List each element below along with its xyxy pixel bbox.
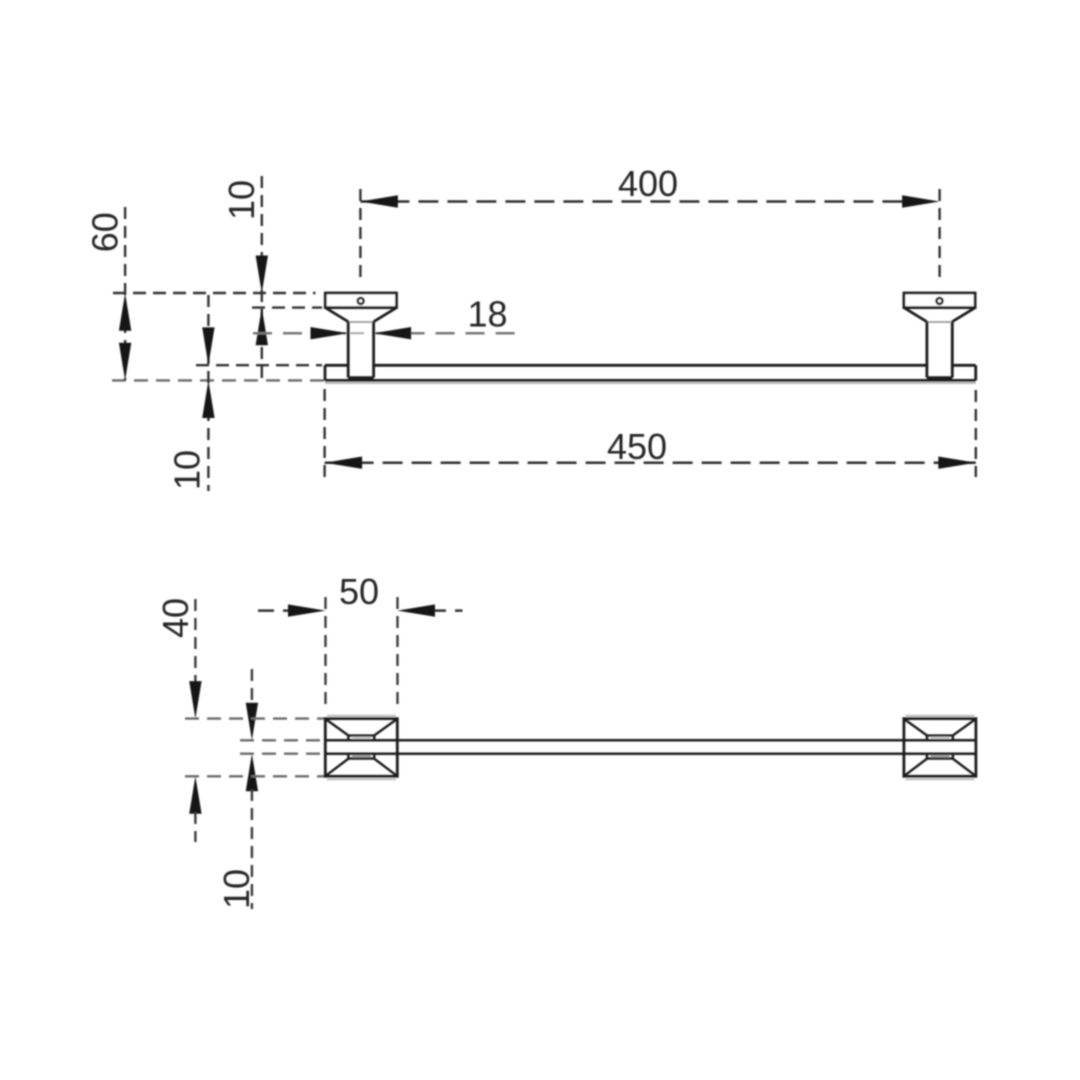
dimension 450 (overall length)	[325, 426, 976, 469]
left flange neck shading	[352, 737, 371, 739]
dimension 10 (bar height, lower-left)	[167, 295, 215, 491]
right flange shadow lines	[906, 715, 975, 717]
extension line y=718.6 (flange top, to left)	[185, 717, 324, 719]
bar (plan view)	[325, 740, 976, 753]
dimension 10 (bar depth, bottom view)	[216, 669, 258, 909]
right flange neck shading	[931, 737, 950, 739]
extension line x=975.8 (bar right end)	[975, 390, 977, 477]
svg-text:50: 50	[339, 571, 379, 612]
left flange shadow lines	[327, 715, 396, 717]
extension line y=307.6 (bottom of plate)	[252, 306, 322, 308]
extension line y=740.3 (bar top, to left)	[240, 739, 324, 741]
svg-text:10: 10	[216, 869, 257, 909]
dimension 10 (plate thickness, upper)	[221, 176, 268, 380]
right screw hole	[937, 298, 943, 304]
right wall plate (front view)	[904, 293, 975, 308]
extension line y=380.4 (bottom of bar, to left)	[112, 379, 324, 381]
left screw hole	[358, 298, 364, 304]
left flange (plan view)	[325, 719, 397, 777]
dimension 18 (post width)	[253, 294, 516, 340]
svg-text:40: 40	[155, 598, 196, 638]
bar (front view)	[325, 365, 976, 380]
extension line x=324.6 (bar left end)	[323, 389, 325, 479]
extension line x=360.4 (left post centre)	[359, 189, 361, 284]
extension line y=753.7 (bar bottom, to left)	[240, 753, 324, 755]
right flange taper diagonals and neck	[905, 720, 975, 776]
svg-text:60: 60	[85, 212, 126, 252]
left flange taper diagonals and neck	[326, 720, 396, 776]
svg-text:10: 10	[221, 180, 262, 220]
svg-text:18: 18	[467, 294, 507, 335]
extension line y=776.3 (flange bottom, to left)	[185, 775, 324, 777]
extension line x=325.5 (flange left)	[324, 597, 326, 708]
svg-text:450: 450	[607, 426, 667, 467]
extension line x=397.5 (flange right)	[396, 597, 398, 708]
dimension 400 (between post centres)	[360, 163, 939, 208]
svg-text:400: 400	[618, 163, 678, 204]
svg-text:10: 10	[167, 450, 208, 490]
right flange (plan view)	[904, 719, 976, 777]
extension line y=293 (top of wall plates, to left)	[113, 292, 316, 294]
right post taper (trapezoid)	[905, 308, 975, 322]
bar shadow line	[325, 382, 976, 384]
right post stem	[927, 321, 952, 323]
dimension 50 (plate width)	[258, 571, 463, 617]
dimension 60 (overall height)	[85, 207, 132, 380]
extension line y=365.2 (top of bar, to left)	[196, 364, 322, 366]
dimension 40 (flange depth)	[155, 598, 202, 842]
left post taper (trapezoid)	[326, 308, 396, 322]
extension line x=939.6 (right post centre)	[938, 189, 940, 284]
left wall plate (front view)	[325, 293, 396, 308]
left post stem	[348, 321, 373, 323]
